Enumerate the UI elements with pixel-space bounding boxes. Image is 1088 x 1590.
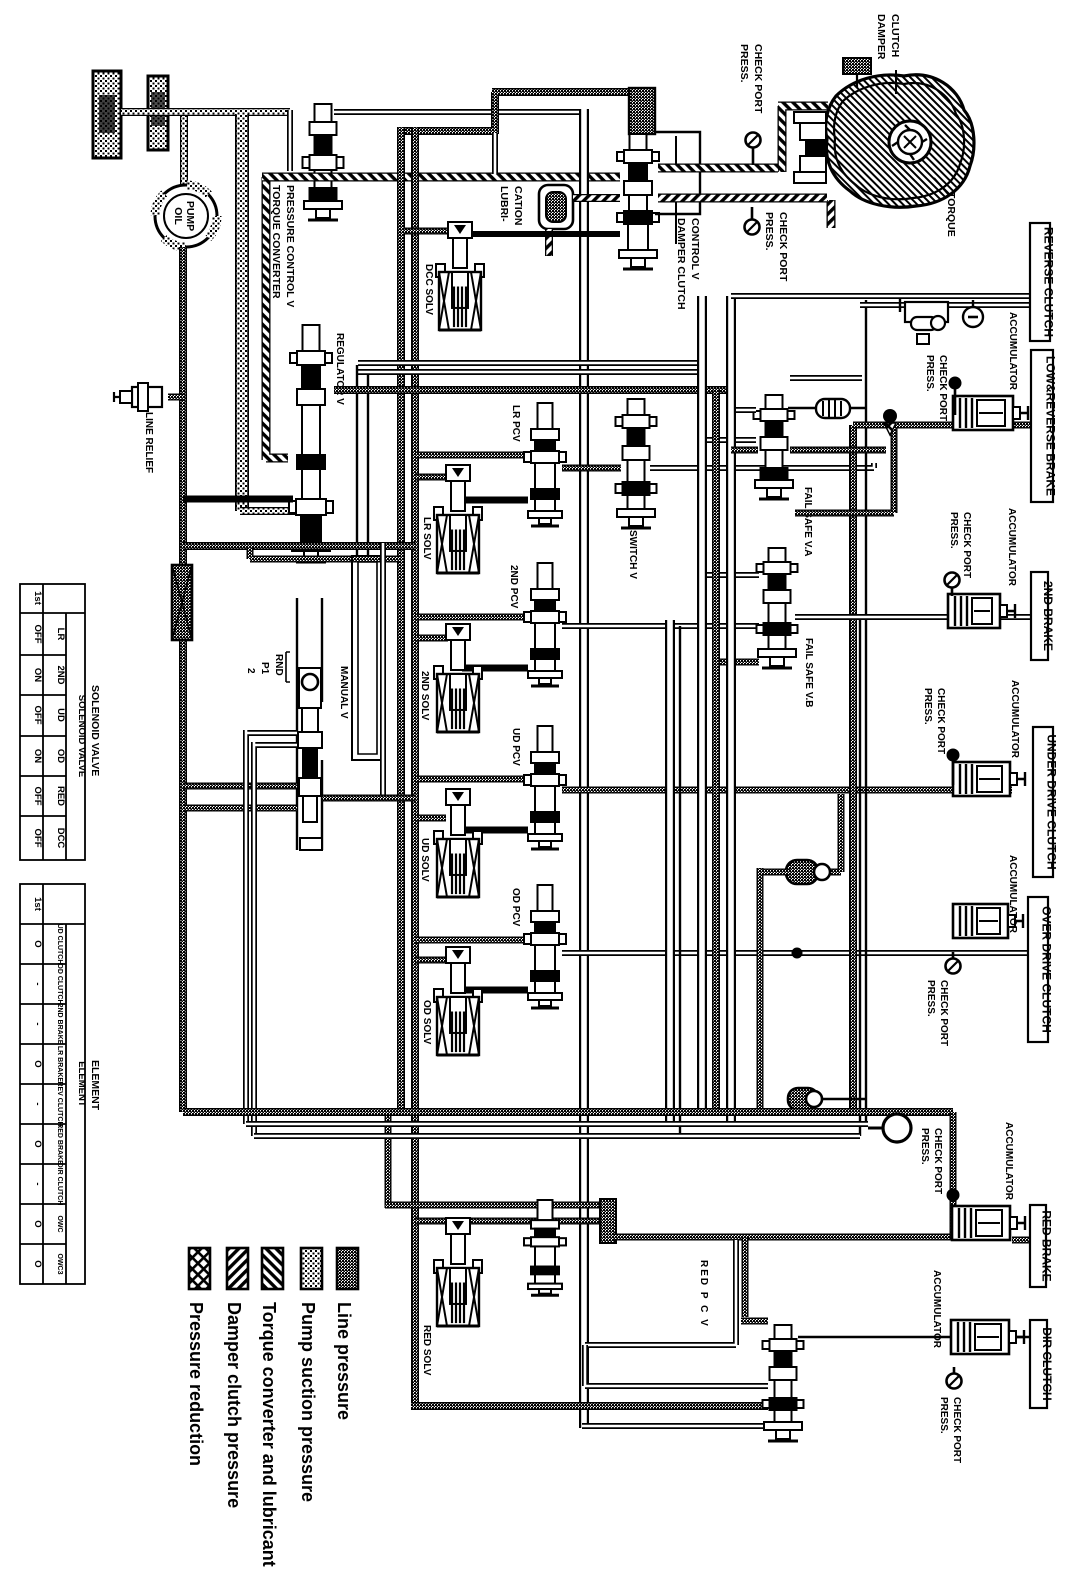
svg-text:O: O	[32, 1140, 43, 1147]
gray pipe capsule to left and down	[760, 868, 790, 1112]
svg-text:DIR CLUTCH: DIR CLUTCH	[1040, 1327, 1054, 1400]
thin 2ND PCV right to fail safe B	[562, 623, 759, 629]
svg-text:OFF: OFF	[32, 829, 43, 848]
svg-text:2ND: 2ND	[55, 665, 66, 684]
hatched pipe DCCV to torque converter lower	[658, 198, 831, 228]
accumulator OD	[953, 904, 1008, 938]
TC hatched pipe vertical	[266, 177, 288, 460]
boxed label LOW&REVERSE BRAKE	[1031, 350, 1053, 502]
solenoid UD SOLV	[446, 789, 470, 805]
svg-text:2ND BRAKE: 2ND BRAKE	[1041, 581, 1055, 651]
thin pipe TC valve to vertical bus x584	[334, 109, 584, 115]
manual valve feed pipes	[183, 783, 297, 790]
torque converter hub	[794, 112, 826, 123]
hatched pipe DCCV to torque converter upper	[658, 106, 828, 172]
solenoid RED SOLV	[446, 1218, 470, 1234]
svg-text:CHECK PORT: CHECK PORT	[961, 512, 972, 578]
legend swatch line pressure	[337, 1248, 358, 1289]
valve LR PCV	[538, 403, 553, 429]
press check port 2	[751, 207, 754, 227]
thin line DCC solenoid to DCCV	[472, 231, 620, 237]
damper hatched pipe cooler to DCCV	[545, 229, 553, 256]
vertical thin bus x731	[726, 296, 736, 1124]
thin link 2ND SOLV to 2ND PCV	[462, 665, 528, 672]
svg-text:1st: 1st	[32, 591, 43, 606]
boxed label REVERSE CLUTCH	[1030, 223, 1050, 341]
svg-text:2ND SOLV: 2ND SOLV	[419, 671, 430, 721]
svg-text:UD PCV: UD PCV	[510, 728, 521, 766]
striped orifice capsule	[816, 399, 850, 418]
lubrication cooler	[539, 185, 573, 229]
svg-text:LR SOLV: LR SOLV	[421, 517, 432, 560]
svg-text:CHECK PORT: CHECK PORT	[777, 212, 789, 282]
svg-text:SOLENOID VALVE: SOLENOID VALVE	[76, 695, 87, 778]
svg-text:Pump suction pressure: Pump suction pressure	[298, 1302, 318, 1502]
boxed label OVER DRIVE CLUTCH	[1028, 897, 1048, 1042]
thin link UD SOLV to UD PCV	[462, 827, 528, 834]
boxed label RED BRAKE	[1030, 1205, 1046, 1287]
main line pressure bus from pump down left side	[179, 247, 187, 1112]
legend swatch torque converter and lubricant	[262, 1248, 283, 1289]
red brake line to box	[1012, 1237, 1030, 1244]
pressure gauge	[972, 300, 974, 308]
thin pipes down to manual chamber	[356, 365, 358, 556]
svg-text:ACCUMULATOR: ACCUMULATOR	[1007, 855, 1018, 934]
boxed label DIR CLUTCH	[1030, 1320, 1047, 1408]
svg-text:LR: LR	[55, 628, 66, 641]
svg-text:PRESS.: PRESS.	[925, 980, 936, 1017]
chamber right of DCCV	[655, 132, 700, 214]
gray branch to 2ND solenoid	[415, 635, 448, 642]
manual valve	[297, 598, 322, 850]
gray branch to LR solenoid	[415, 474, 448, 481]
TC hatched pipe horizontal to damper clutch control valve	[262, 173, 620, 182]
svg-text:P1: P1	[259, 662, 270, 675]
svg-text:-: -	[32, 982, 43, 985]
svg-text:UD CLUTCH: UD CLUTCH	[56, 924, 63, 965]
accumulator DIR	[951, 1320, 1009, 1354]
solenoid LR SOLV	[446, 465, 470, 481]
gray drop to bottom spool	[741, 1237, 768, 1321]
gray stub to fail safe B	[716, 659, 759, 666]
svg-text:OFF: OFF	[32, 625, 43, 644]
line relief valve	[168, 394, 183, 401]
svg-text:LR PCV: LR PCV	[510, 405, 521, 442]
check port 2nd	[951, 580, 954, 596]
red brake accumulator	[952, 1206, 1010, 1240]
accumulator UD	[953, 762, 1010, 796]
gray branch to UD solenoid	[415, 815, 446, 822]
svg-text:CHECK PORT: CHECK PORT	[932, 1128, 943, 1194]
svg-text:PRESS.: PRESS.	[924, 355, 935, 392]
thin link OD SOLV to OD PCV	[462, 987, 528, 994]
svg-text:ON: ON	[32, 668, 43, 682]
svg-text:LUBRI-: LUBRI-	[498, 186, 510, 222]
oil filter block	[148, 76, 168, 150]
accumulator 2nd	[948, 594, 1000, 628]
fail safe valve A	[766, 395, 783, 409]
solenoid 2ND SOLV	[446, 624, 470, 640]
svg-text:DIR CLUTCH: DIR CLUTCH	[56, 1163, 63, 1206]
svg-text:OFF: OFF	[32, 787, 43, 806]
gray branch to DCC solenoid	[404, 228, 448, 235]
junction check ball	[883, 409, 897, 423]
svg-text:UD: UD	[55, 708, 66, 722]
switch valve	[628, 399, 645, 415]
svg-text:ACCUMULATOR: ACCUMULATOR	[1007, 312, 1018, 391]
svg-text:CHECK PORT: CHECK PORT	[951, 1397, 962, 1463]
legend swatch pump suction pressure	[301, 1248, 322, 1289]
valve UD PCV	[538, 726, 553, 752]
long thin vertical bus x584	[579, 109, 589, 1428]
gray branch to OD solenoid	[415, 957, 448, 964]
gray pipe regulator to switch bus	[334, 386, 731, 394]
svg-text:LINE RELIEF: LINE RELIEF	[143, 412, 154, 473]
svg-text:RED BRAKE: RED BRAKE	[56, 1123, 63, 1165]
check port DIR	[953, 1367, 956, 1381]
svg-text:RED P C V: RED P C V	[698, 1260, 709, 1328]
valve RED PCV small	[538, 1200, 553, 1220]
gray branch bus to UD PCV	[415, 776, 528, 783]
oil pan (suction strainer block)	[93, 71, 121, 158]
solenoid DCC SOLV	[448, 222, 472, 238]
table SOLENOID VALVE	[20, 584, 85, 860]
gray branch bus to OD PCV	[415, 937, 528, 944]
low reverse brake gray line	[795, 425, 1033, 513]
svg-text:OD: OD	[55, 749, 66, 763]
pipe suction down to pump	[180, 116, 188, 186]
thin lines bottom right	[585, 1240, 736, 1345]
DCCV top chamber block	[629, 88, 655, 134]
svg-text:PRESS.: PRESS.	[763, 212, 775, 251]
fail safe valve B	[769, 548, 786, 562]
thin OD clutch line right	[562, 950, 1028, 956]
svg-text:UD SOLV: UD SOLV	[419, 838, 430, 882]
manual valve chamber	[352, 556, 383, 760]
svg-text:OVER DRIVE CLUTCH: OVER DRIVE CLUTCH	[1039, 906, 1053, 1033]
svg-text:OD CLUTCH: OD CLUTCH	[56, 963, 63, 1004]
svg-text:Line pressure: Line pressure	[334, 1302, 354, 1420]
gray branch bus to LR PCV	[415, 452, 528, 459]
solenoid OD SOLV	[446, 947, 470, 963]
orifice capsule upper with check ball	[830, 794, 841, 872]
vertical thin buses right	[859, 617, 861, 1136]
main gray bus x401	[397, 127, 405, 1112]
svg-text:CLUTCH: CLUTCH	[889, 14, 901, 57]
svg-text:PRESSURE CONTROL V: PRESSURE CONTROL V	[284, 185, 296, 307]
thin pair below gray corner	[492, 133, 498, 174]
svg-text:CATION: CATION	[512, 186, 524, 225]
svg-text:PRESS.: PRESS.	[922, 688, 933, 725]
svg-text:DAMPER: DAMPER	[875, 14, 887, 60]
valve 2ND PCV	[538, 563, 553, 589]
cooler bypass valve small	[899, 298, 901, 312]
svg-text:FAIL SAFE V.B: FAIL SAFE V.B	[803, 638, 814, 707]
svg-text:CHECK PORT: CHECK PORT	[937, 355, 948, 421]
svg-text:REVERSE CLUTCH: REVERSE CLUTCH	[1041, 227, 1055, 337]
svg-text:1st: 1st	[32, 897, 43, 912]
svg-text:O: O	[32, 940, 43, 947]
check port RED	[947, 1189, 959, 1201]
check port OD	[952, 952, 955, 966]
orifice capsule lower with check ball	[820, 1098, 866, 1100]
junction dot on OD line	[792, 948, 803, 959]
svg-text:TORQUE: TORQUE	[945, 192, 957, 237]
bottom right spool valve	[775, 1325, 792, 1339]
table ELEMENT	[20, 884, 85, 1284]
manual valve thin outputs	[246, 730, 868, 1124]
dir clutch line	[798, 1336, 1030, 1339]
gray line fail safe A to check ball	[790, 447, 886, 454]
gray pipe bus tops	[401, 92, 634, 134]
torque converter pressure control valve	[315, 104, 332, 122]
check port UD	[952, 755, 955, 785]
svg-text:PUMP: PUMP	[184, 201, 196, 231]
svg-text:CHECK PORT: CHECK PORT	[935, 688, 946, 754]
svg-text:OWC: OWC	[56, 1215, 63, 1232]
svg-text:O: O	[32, 1260, 43, 1267]
svg-text:2: 2	[245, 668, 256, 674]
svg-text:RED: RED	[55, 786, 66, 806]
svg-text:OWC3: OWC3	[56, 1254, 63, 1275]
boxed label 2ND BRAKE	[1031, 572, 1048, 660]
svg-text:OFF: OFF	[32, 706, 43, 725]
svg-text:LOW&REVERSE BRAKE: LOW&REVERSE BRAKE	[1043, 356, 1057, 496]
svg-text:TORQUE CONVERTER: TORQUE CONVERTER	[270, 185, 282, 299]
svg-text:PRESS.: PRESS.	[738, 44, 750, 83]
legend swatch pressure reduction	[189, 1248, 210, 1289]
gray bus stub x388 lower	[385, 1112, 392, 1208]
gray pipes under regulator	[183, 542, 415, 550]
svg-text:-: -	[32, 1182, 43, 1185]
svg-text:PRESS.: PRESS.	[948, 512, 959, 549]
svg-text:PRESS.: PRESS.	[919, 1128, 930, 1165]
svg-text:PRESS.: PRESS.	[938, 1397, 949, 1434]
vertical thin buses middle	[665, 620, 675, 1124]
svg-text:-: -	[32, 1022, 43, 1025]
svg-text:REV CLUTCH: REV CLUTCH	[56, 1081, 63, 1126]
svg-text:ELEMENT: ELEMENT	[76, 1061, 87, 1107]
svg-text:Torque converter and lubricant: Torque converter and lubricant	[259, 1302, 279, 1567]
svg-text:CHECK PORT: CHECK PORT	[938, 980, 949, 1046]
svg-text:O: O	[32, 1220, 43, 1227]
bottom collectors	[183, 1108, 953, 1116]
svg-text:ACCUMULATOR: ACCUMULATOR	[1006, 508, 1017, 587]
svg-text:ACCUMULATOR: ACCUMULATOR	[931, 1270, 942, 1349]
wire thin vertical from suction tee to TC line	[287, 110, 293, 171]
filter block on left bus	[172, 565, 192, 640]
svg-text:LR BRAKE: LR BRAKE	[56, 1046, 63, 1082]
svg-text:OIL: OIL	[172, 207, 184, 225]
svg-text:CHECK PORT: CHECK PORT	[752, 44, 764, 114]
svg-text:O: O	[32, 1060, 43, 1067]
svg-text:FAIL SAFE V.A: FAIL SAFE V.A	[802, 487, 813, 556]
pipe suction down to regulator	[235, 114, 249, 511]
gray branch bus to 2ND PCV	[415, 614, 528, 621]
svg-text:OD SOLV: OD SOLV	[421, 1000, 432, 1045]
gray LR PCV to switch valve	[562, 465, 621, 472]
svg-text:2ND PCV: 2ND PCV	[508, 565, 519, 609]
gray drop to red brake area	[950, 1112, 957, 1240]
gray UD clutch line to accumulator	[562, 787, 1012, 794]
svg-text:OD PCV: OD PCV	[510, 888, 521, 927]
2nd brake line	[795, 614, 1031, 620]
svg-text:Damper clutch pressure: Damper clutch pressure	[224, 1302, 244, 1508]
svg-text:RED BRAKE: RED BRAKE	[1039, 1210, 1053, 1281]
boxed label UNDER DRIVE CLUTCH	[1033, 727, 1053, 877]
black line to regulator left	[183, 496, 293, 503]
thin link LR SOLV to LR PCV	[462, 497, 528, 504]
main gray bus x415	[411, 127, 768, 1406]
thin pipes regulator right	[358, 360, 702, 366]
thin line fail safe A right	[790, 375, 862, 381]
reverse clutch line	[731, 293, 1030, 299]
legend swatch damper clutch pressure	[227, 1248, 248, 1289]
svg-text:SWITCH V: SWITCH V	[627, 530, 638, 579]
svg-text:REGULATOR V: REGULATOR V	[334, 333, 345, 405]
svg-text:ACCUMULATOR: ACCUMULATOR	[1009, 680, 1020, 759]
thin LR line switch to right bus	[650, 463, 874, 468]
vertical gray bus x853	[849, 425, 857, 1112]
svg-text:Pressure reduction: Pressure reduction	[186, 1302, 206, 1466]
svg-text:DCC: DCC	[55, 828, 66, 849]
damper clutch control valve DCCV	[630, 134, 647, 150]
svg-text:ACCUMULATOR: ACCUMULATOR	[1003, 1122, 1014, 1201]
svg-text:UNDER DRIVE CLUTCH: UNDER DRIVE CLUTCH	[1044, 734, 1058, 869]
svg-text:SOLENOID VALVE: SOLENOID VALVE	[89, 685, 101, 776]
torque converter	[826, 75, 974, 207]
svg-text:RED SOLV: RED SOLV	[421, 1325, 432, 1376]
oil pump	[155, 185, 217, 247]
svg-text:ON: ON	[32, 749, 43, 763]
stubs to fail safe valves	[702, 437, 756, 443]
svg-text:-: -	[32, 1102, 43, 1105]
svg-text:ELEMENT: ELEMENT	[89, 1060, 101, 1111]
svg-text:RND: RND	[273, 654, 284, 676]
svg-text:2ND BRAKE: 2ND BRAKE	[56, 1004, 63, 1045]
relief ball large circle	[868, 1127, 882, 1130]
svg-text:DCC SOLV: DCC SOLV	[423, 264, 434, 315]
accumulator low reverse	[953, 396, 1013, 430]
press check port 1	[752, 140, 755, 165]
svg-text:CONTROL V: CONTROL V	[689, 218, 701, 280]
regulator valve	[303, 325, 320, 351]
svg-text:MANUAL V: MANUAL V	[338, 666, 349, 719]
converter top box	[843, 58, 871, 74]
check port low reverse	[954, 383, 957, 415]
vertical gray bus x716	[712, 390, 720, 1112]
pipe suction pan to filter to line	[121, 108, 290, 116]
valve OD PCV	[538, 885, 553, 911]
